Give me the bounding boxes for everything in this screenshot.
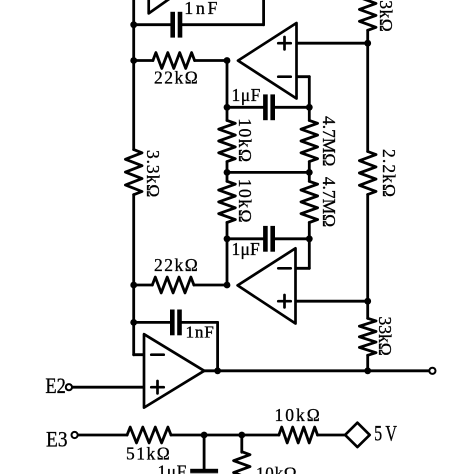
svg-text:22kΩ: 22kΩ (154, 68, 199, 88)
svg-text:10kΩ: 10kΩ (256, 464, 297, 474)
svg-text:1nF: 1nF (186, 323, 215, 342)
svg-text:10kΩ: 10kΩ (235, 118, 255, 163)
svg-text:33kΩ: 33kΩ (375, 317, 395, 356)
svg-text:3.3kΩ: 3.3kΩ (143, 150, 163, 198)
svg-text:5 V: 5 V (374, 420, 397, 445)
svg-text:22kΩ: 22kΩ (154, 255, 199, 275)
svg-text:E3: E3 (46, 426, 68, 451)
svg-text:51kΩ: 51kΩ (126, 444, 171, 464)
svg-text:1μF: 1μF (232, 85, 261, 105)
svg-text:10kΩ: 10kΩ (235, 179, 255, 224)
svg-text:1nF: 1nF (184, 0, 220, 18)
svg-text:3kΩ: 3kΩ (376, 0, 396, 32)
svg-text:E2: E2 (45, 373, 66, 398)
svg-text:10kΩ: 10kΩ (275, 405, 322, 425)
svg-text:4.7MΩ: 4.7MΩ (319, 116, 339, 166)
svg-text:4.7MΩ: 4.7MΩ (319, 177, 339, 227)
svg-text:1μF: 1μF (232, 239, 261, 259)
svg-text:1μF: 1μF (158, 462, 187, 474)
svg-text:2.2kΩ: 2.2kΩ (379, 149, 399, 198)
